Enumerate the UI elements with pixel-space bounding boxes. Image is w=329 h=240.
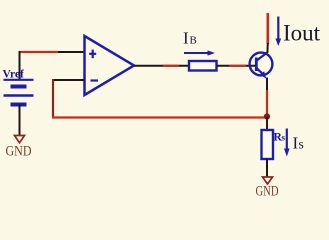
- label IB: [183, 29, 197, 48]
- resistor R1 (base resistor): [189, 61, 217, 71]
- current arrow Is: [284, 129, 290, 157]
- wire: op-amp noninverting input horizontal: [19, 51, 85, 53]
- wire: collector up: [266, 13, 269, 53]
- wire: Vref top vertical: [19, 51, 21, 80]
- svg-text:I: I: [183, 29, 189, 48]
- svg-text:GND: GND: [6, 144, 32, 160]
- wire: battery to ground: [19, 105, 21, 136]
- svg-text:s: s: [282, 133, 286, 143]
- label Rs: [274, 132, 286, 144]
- svg-text:B: B: [190, 35, 197, 47]
- node junction dot: [264, 113, 270, 119]
- svg-text:GND: GND: [256, 184, 279, 200]
- battery V1 Vref: [3, 69, 34, 105]
- wire: Rs to ground: [266, 159, 268, 177]
- resistor R2 Rs: [262, 130, 274, 159]
- wire: resistor to transistor base: [217, 65, 256, 67]
- wire: junction to Rs: [266, 117, 268, 131]
- label Is: [293, 134, 304, 153]
- svg-text:Iout: Iout: [283, 21, 321, 46]
- svg-text:s: s: [299, 137, 304, 152]
- current arrow IB: [184, 50, 215, 55]
- ground GND right: [256, 177, 279, 200]
- wire: emitter down: [266, 78, 268, 118]
- op-amp U1: [85, 36, 135, 95]
- current arrow Iout: [275, 17, 281, 47]
- wire: op-amp output: [134, 65, 189, 67]
- transistor Q1: [250, 53, 273, 79]
- wire: feedback vertical left: [52, 79, 54, 118]
- ground GND left: [6, 136, 32, 160]
- svg-text:Vref: Vref: [3, 69, 24, 81]
- wire: feedback horizontal bottom: [52, 116, 267, 118]
- wire: op-amp inverting input: [53, 79, 85, 81]
